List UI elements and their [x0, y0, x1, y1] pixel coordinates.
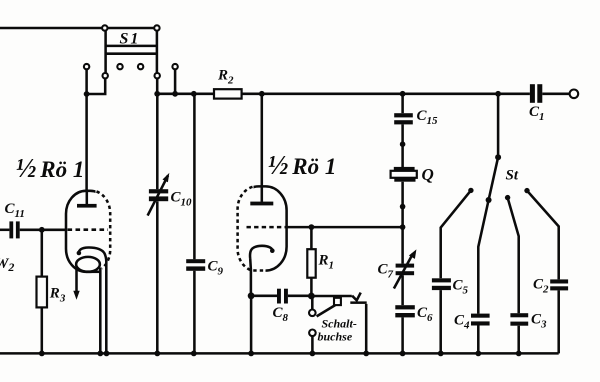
heater arrow tube1: [73, 267, 79, 300]
capacitor C4 branch: [471, 200, 490, 353]
wire antenna input top-left: [0, 27, 157, 30]
junction dot C4 bus: [475, 351, 481, 357]
junction dot C15 top: [400, 91, 406, 97]
wire tube2 anode lead: [261, 94, 264, 187]
wire Q to C7: [401, 182, 404, 264]
junction dot grid wire: [400, 224, 406, 230]
pin circle S1 right: [155, 73, 160, 78]
capacitor C11: [0, 221, 67, 238]
wire tube2 cathode to bus: [250, 296, 253, 354]
capacitor C9: [186, 94, 205, 354]
junction dot R1 top: [309, 224, 315, 230]
junction dot below Q: [400, 204, 406, 210]
trimmer capacitor C10: [148, 94, 170, 354]
junction dot C5 bus: [438, 351, 444, 357]
resistor R3: [37, 230, 48, 354]
junction dot tube2 anode: [259, 91, 265, 97]
wire HT bus right: [242, 93, 530, 96]
terminal circle output: [570, 90, 579, 99]
junction dot pin D: [172, 91, 178, 97]
junction dot anode tube1: [84, 91, 90, 97]
svg-text:buchse: buchse: [318, 330, 353, 344]
wire ground bus bottom: [0, 352, 559, 355]
socket pin circle D: [172, 64, 177, 69]
svg-text:½Rö 1: ½Rö 1: [268, 150, 336, 180]
capacitor C3 branch: [508, 198, 529, 354]
junction dot C6 bus: [400, 351, 406, 357]
socket pin circle A: [84, 64, 89, 69]
capacitor C5 branch: [432, 190, 471, 353]
wire C7 to C6: [401, 275, 404, 305]
tube U1 (1/2 Roe1 left): [66, 187, 116, 275]
wire tube1 heater leg to bus: [99, 268, 102, 354]
terminal circle S1 top left: [102, 25, 107, 30]
junction dot switch St top: [495, 91, 501, 97]
terminal circle S1 top right: [154, 25, 159, 30]
capacitor C2 branch: [527, 191, 568, 354]
wire tube2 grid to C7 line: [286, 226, 403, 229]
wire pin D down: [174, 69, 177, 94]
trimmer capacitor C7: [394, 249, 417, 288]
junction dot C3 bus: [516, 351, 522, 357]
svg-text:½Rö 1: ½Rö 1: [16, 153, 84, 183]
junction dot C9 top: [191, 91, 197, 97]
tube U2 (1/2 Roe1 right): [227, 183, 287, 276]
wire C1 to output: [542, 93, 569, 96]
capacitor C15: [394, 113, 413, 124]
socket pin circle B: [117, 64, 122, 69]
junction dot grid tube1: [39, 227, 45, 233]
junction dot tube2 cathode bus: [248, 351, 254, 357]
jack Schaltbuchse: [309, 293, 367, 354]
wire pin A down: [85, 69, 88, 94]
junction dot C10 bus: [154, 351, 160, 357]
wire S1 left pin to node: [87, 78, 106, 94]
wire tube1 anode lead: [85, 94, 88, 192]
svg-text:Schalt-: Schalt-: [322, 317, 357, 331]
quartz crystal Q: [391, 167, 417, 182]
switch St: [468, 94, 530, 203]
capacitor C1: [530, 84, 542, 103]
junction dot tube1 heater bus: [97, 351, 103, 357]
wire tube2 cathode lead: [249, 259, 252, 296]
junction dot R3 bus: [39, 351, 45, 357]
wire C15 branch top: [401, 94, 404, 113]
socket pin circle C: [138, 64, 143, 69]
wire HT bus left: [157, 93, 214, 96]
wire C15 to Q: [401, 124, 404, 167]
junction dot C10 top: [154, 91, 160, 97]
resistor R1: [310, 227, 313, 249]
wire C6 to bus: [401, 317, 404, 353]
capacitor C6: [395, 305, 415, 317]
wire tube1 cathode to bus: [105, 260, 108, 353]
pin circle S1 left: [103, 73, 108, 78]
junction dot R1 bottom: [308, 293, 315, 300]
junction dot jack bus: [310, 351, 316, 357]
capacitor C8: [251, 289, 311, 304]
junction dot C15-Q: [400, 141, 406, 147]
junction dot tube2 cathode: [248, 292, 255, 299]
svg-text:St: St: [506, 168, 519, 184]
svg-text:S1: S1: [120, 31, 141, 48]
junction dot jack right bus: [363, 351, 369, 357]
junction dot C9 bus: [191, 351, 197, 357]
junction dot tube1 cathode bus: [104, 351, 110, 357]
resistor R2: [214, 89, 242, 98]
coil S1: [106, 28, 157, 73]
wire S1 right pin down: [156, 78, 159, 93]
svg-text:Q: Q: [422, 165, 434, 184]
